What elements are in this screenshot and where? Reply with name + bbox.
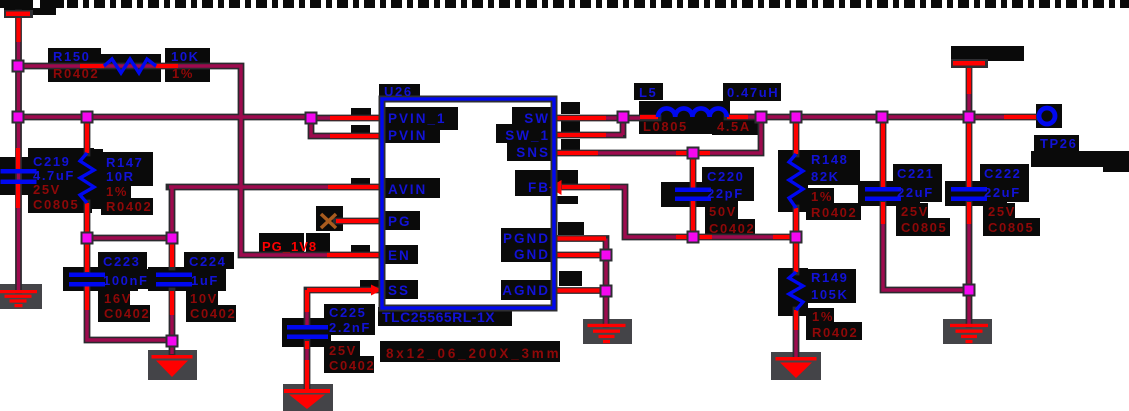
svg-text:10R: 10R (106, 169, 135, 184)
svg-text:C0402: C0402 (104, 306, 150, 321)
no-connect X on PG (321, 214, 336, 228)
no-connect X bg (316, 206, 343, 231)
wire C221 column (883, 119, 969, 290)
capacitor C221 (865, 187, 901, 201)
svg-text:22pF: 22pF (707, 186, 744, 201)
node C221/C222 gnd (965, 286, 974, 295)
R150 value 10K label bg (165, 48, 210, 82)
svg-text:R148: R148 (811, 152, 848, 167)
1V8 power flag label bg (951, 46, 1024, 61)
ground gnd6 (C221/C222) bar style (950, 324, 988, 343)
node out/SNS (757, 113, 766, 122)
wire output rail (727, 114, 1036, 121)
resistor R147 body bg (73, 149, 103, 209)
svg-text:25V: 25V (33, 182, 61, 197)
wire SNS row (554, 117, 761, 153)
wire R150 row crimson (18, 66, 330, 255)
IC (382, 99, 554, 308)
svg-text:PVIN_1: PVIN_1 (388, 111, 447, 126)
IC name bg (378, 307, 512, 326)
R149 body bg (778, 268, 808, 316)
wire PGND/AGND (554, 239, 606, 325)
wire R149 bottom crimson (794, 330, 797, 357)
red: FB row near resistors (676, 235, 796, 239)
svg-text:C0402: C0402 (329, 358, 375, 373)
wire SS column crimson (305, 300, 308, 389)
C225 body bg (282, 318, 331, 347)
svg-text:R0402: R0402 (812, 325, 858, 340)
ground gnd2 (C223/C224) triangle style (152, 355, 193, 377)
testpoint bg (1036, 104, 1062, 128)
R148 label bg (806, 150, 860, 185)
R149 label bg (806, 269, 856, 303)
C225 label bg (324, 304, 375, 335)
svg-text:C221: C221 (897, 166, 934, 181)
red: R147 stubs (85, 117, 89, 272)
C222 body bg (945, 181, 1007, 206)
node AVIN/C224 (168, 234, 177, 243)
svg-text:R0402: R0402 (106, 199, 152, 214)
red: PGND/AGND stubs (554, 239, 606, 291)
wire C224 stub crimson (170, 291, 173, 340)
C220 label bg (702, 167, 754, 201)
wire VIN column crimson (17, 13, 20, 290)
node VIN/rail (14, 113, 23, 122)
wire SS + C225 (307, 290, 382, 389)
red: C222 stubs (967, 119, 971, 224)
svg-text:16V: 16V (104, 291, 132, 306)
wire R148/R149 column (793, 117, 800, 357)
red: C221 stubs (881, 119, 885, 224)
wire SNS crimson (598, 117, 761, 153)
svg-text:C225: C225 (329, 305, 366, 320)
C224 body bg (148, 267, 226, 291)
svg-text:EN: EN (388, 248, 411, 263)
svg-text:8x12_06_200X_3mm: 8x12_06_200X_3mm (386, 346, 561, 361)
capacitor C220 (675, 188, 711, 202)
svg-text:1%: 1% (106, 184, 128, 199)
power flag 1V8 (top-right) (951, 59, 988, 68)
svg-text:1uF: 1uF (191, 273, 219, 288)
resistor R147 (80, 153, 94, 203)
gnd1 bg (0, 284, 42, 309)
svg-text:L0805: L0805 (643, 119, 688, 134)
IC pin name bgs: left (385, 107, 458, 130)
svg-text:0.47uH: 0.47uH (727, 85, 779, 100)
gnd3 bg (283, 384, 333, 411)
gnd4 bg (R149) (771, 352, 821, 380)
red: VIN flag stem (16, 13, 20, 42)
sheet top dashed border (67, 0, 1129, 8)
svg-text:22uF: 22uF (897, 185, 934, 200)
svg-text:25V: 25V (329, 343, 357, 358)
node VIN/R150 (14, 62, 23, 71)
node out/C222 (965, 113, 974, 122)
wire SW stubs (554, 117, 658, 135)
red: C224 stubs (170, 238, 174, 315)
ground gnd3 (C225) triangle style (284, 389, 330, 409)
resistor R148 (789, 154, 803, 208)
svg-text:C220: C220 (707, 169, 744, 184)
svg-text:25V: 25V (988, 204, 1016, 219)
svg-text:105K: 105K (811, 287, 848, 302)
red: EN stub (327, 253, 382, 257)
svg-text:SS: SS (388, 283, 410, 298)
R147 label bg (101, 152, 153, 186)
ground gnd5 (AGND) bar style (588, 324, 626, 343)
svg-text:C0402: C0402 (190, 306, 236, 321)
red: FB stub (562, 185, 610, 189)
node FB/R149 (792, 233, 801, 242)
wire R147/C223 column crimson (87, 286, 172, 354)
svg-text:1%: 1% (172, 66, 194, 81)
svg-text:PVIN: PVIN (388, 128, 428, 143)
svg-text:PGND: PGND (503, 231, 550, 246)
red: R149 stubs (794, 310, 798, 330)
SS arrowhead (371, 285, 382, 296)
node SW (619, 113, 628, 122)
wire AVIN row crimson (87, 187, 330, 238)
node FB/C220 (689, 233, 698, 242)
node PGND (602, 251, 611, 260)
pin number boxes right side (561, 102, 580, 114)
FB input diamond (549, 180, 562, 195)
svg-text:C224: C224 (189, 254, 226, 269)
red: C219 stubs (16, 148, 20, 208)
red: C220 stubs (691, 153, 695, 237)
resistor R149 (789, 272, 803, 310)
svg-text:GND: GND (514, 247, 550, 262)
svg-text:25V: 25V (901, 204, 929, 219)
wire PVIN_1 stub (311, 115, 382, 122)
svg-text:10V: 10V (190, 291, 218, 306)
node rail/PVIN (307, 114, 316, 123)
IC footprint bg (380, 341, 560, 362)
svg-text:C219: C219 (33, 154, 70, 169)
capacitor C219 body bg (0, 157, 41, 195)
L5 labels bg (634, 83, 663, 100)
node SNS/C220 (689, 149, 698, 158)
capacitor C219 label bg (28, 148, 94, 180)
svg-text:PG_1V8: PG_1V8 (262, 239, 317, 254)
red: SNS stub (554, 151, 710, 155)
gnd5 bg (AGND) (583, 319, 632, 344)
red: AVIN stub (328, 185, 382, 189)
wire VIN column (15, 13, 22, 290)
svg-text:2.2nF: 2.2nF (329, 320, 371, 335)
power flag VIN label (black text on black) (0, 0, 33, 8)
wire main rail crimson (18, 115, 311, 118)
capacitor C225 (287, 325, 328, 339)
capacitor C222 (951, 187, 987, 201)
svg-text:50V: 50V (709, 204, 737, 219)
wire PVIN branch (311, 117, 382, 136)
R148 body bg (778, 150, 808, 212)
gnd6 bg (943, 319, 992, 344)
svg-text:TP26: TP26 (1040, 136, 1077, 151)
node AGND (602, 287, 611, 296)
red: PVIN_1 stub (330, 116, 382, 120)
svg-text:AVIN: AVIN (388, 182, 427, 197)
wire R147 column (87, 117, 172, 354)
wire C222 column (966, 119, 973, 324)
wire SW crimson (604, 116, 640, 135)
svg-text:AGND: AGND (502, 283, 550, 298)
wire AVIN row (87, 187, 382, 238)
svg-text:C0805: C0805 (988, 220, 1034, 235)
svg-text:L5: L5 (639, 85, 657, 100)
svg-text:C223: C223 (103, 254, 140, 269)
PG_1V8 label bg (259, 233, 304, 256)
C221 label bg (893, 164, 942, 202)
wire 1V8 flag stem (966, 64, 973, 117)
wire PG stub (336, 218, 382, 225)
svg-text:22uF: 22uF (984, 185, 1021, 200)
inductor L5 (658, 108, 727, 117)
capacitor C219 (1, 169, 37, 184)
svg-text:SNS: SNS (516, 145, 550, 160)
L5 body bg (639, 101, 730, 134)
svg-text:C0805: C0805 (33, 197, 79, 212)
svg-text:4.5A: 4.5A (717, 119, 751, 134)
wire 1V8 stem crimson (967, 94, 970, 117)
node out/C221 (878, 113, 887, 122)
svg-text:SW_1: SW_1 (505, 128, 550, 143)
junction halo squares (12, 60, 976, 348)
svg-text:PG: PG (388, 214, 412, 229)
testpoint TP26 (1039, 108, 1055, 124)
resistor R150 label bg (48, 48, 101, 82)
red: coil right stub (727, 115, 748, 119)
red: R150 stubs (80, 64, 178, 68)
red: testpoint stub (1004, 115, 1036, 119)
wire FB crimson (610, 187, 773, 237)
C222 label bg (980, 164, 1029, 202)
svg-text:R0402: R0402 (53, 66, 99, 81)
op-amp/regulator U26 body (382, 99, 554, 308)
red: 1V8 flag stem (967, 64, 971, 94)
svg-text:FB: FB (528, 180, 550, 195)
svg-text:C222: C222 (984, 166, 1021, 181)
node rail/R147 (83, 113, 92, 122)
wire PVIN branch crimson (311, 117, 332, 136)
svg-text:10K: 10K (171, 49, 200, 64)
wire R150 row + EN branch (18, 66, 382, 255)
pin number boxes left side (351, 108, 371, 117)
svg-text:100nF: 100nF (103, 273, 149, 288)
wire C224 stubs (169, 238, 176, 340)
C221 body bg (858, 181, 920, 206)
svg-text:R147: R147 (106, 155, 143, 170)
wire AGND column crimson (604, 239, 607, 325)
TP26 label bg (1034, 135, 1079, 151)
C224 label bg (184, 252, 234, 269)
svg-text:SW: SW (524, 111, 550, 126)
red: SS stub + cap (307, 290, 374, 389)
svg-text:C0805: C0805 (901, 220, 947, 235)
node AVIN/C223 (83, 234, 92, 243)
resistor R150 (104, 59, 156, 73)
red: PG stub (336, 219, 382, 223)
wire output rail crimson (748, 115, 1006, 118)
wire main rail (18, 114, 311, 121)
red: C223 bottom stub (85, 286, 89, 310)
node C223/C224 gnd (168, 337, 177, 346)
node out/R148 (792, 113, 801, 122)
svg-text:TLC25565RL-1X: TLC25565RL-1X (382, 309, 495, 325)
svg-text:4.7uF: 4.7uF (33, 168, 75, 183)
U26 label bg (379, 84, 420, 99)
svg-text:U26: U26 (384, 84, 413, 99)
wire C221/C222 bottoms crimson (883, 224, 969, 324)
svg-text:R150: R150 (53, 49, 90, 64)
power flag VIN (top-left) (4, 10, 33, 18)
red: R148 stubs (794, 117, 798, 272)
C220 body bg (661, 182, 720, 207)
svg-text:1%: 1% (812, 309, 834, 324)
C223 body bg (63, 267, 138, 291)
IC pin name bgs: right (512, 107, 553, 126)
ground gnd4 (R149) triangle style (776, 357, 817, 378)
resistor R150 body bg (101, 54, 161, 82)
svg-text:C0402: C0402 (709, 221, 755, 236)
ground gnd1 (C219) bar style (0, 290, 37, 307)
svg-text:R149: R149 (811, 270, 848, 285)
wire FB row (562, 187, 796, 237)
red: SW stubs (554, 117, 658, 135)
red: PVIN branch (330, 134, 382, 138)
wire C220 stubs (690, 153, 697, 237)
C223 label bg (98, 252, 147, 269)
capacitor C223 (69, 273, 105, 287)
capacitor C224 (156, 273, 192, 287)
gnd2 bg (148, 350, 197, 380)
svg-text:82K: 82K (811, 169, 840, 184)
svg-text:1%: 1% (811, 189, 833, 204)
svg-text:R0402: R0402 (811, 205, 857, 220)
